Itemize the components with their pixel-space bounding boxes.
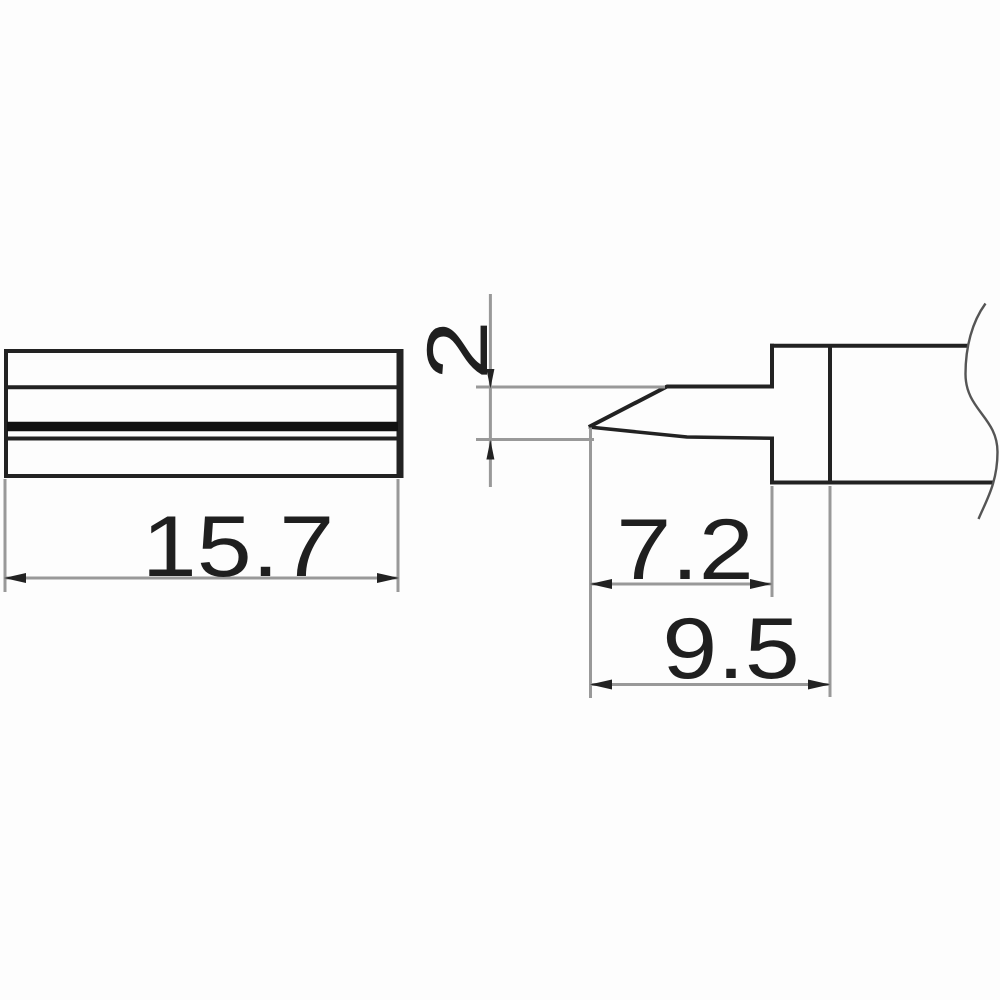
side view body outline [6,351,399,476]
svg-text:9.5: 9.5 [662,600,799,697]
arrow left 9.5 [590,680,612,690]
extension line lower for 2 [476,438,594,441]
arrow left 7.2 [590,579,612,589]
extension line tip vertical [589,428,592,699]
arrow up for 2 [486,440,494,460]
svg-text:15.7: 15.7 [142,498,334,595]
shank step upper [770,344,774,389]
dimension line 15.7 [6,577,397,580]
extension line upper for 2 [476,386,665,389]
side view right edge thick [397,349,404,478]
dimension line 9.5 [591,683,829,686]
shank bottom edge [770,481,993,485]
side view inner line top [7,385,398,389]
extension line left of 15.7 [4,479,7,592]
arrow down for 2 [486,369,494,389]
shank step lower [770,437,774,485]
shank divider line [828,344,832,484]
blade top edge [589,387,772,428]
svg-text:7.2: 7.2 [616,501,753,598]
extension line right of 15.7 [397,479,400,592]
blade bottom edge [589,427,772,438]
svg-text:2: 2 [409,320,505,380]
side view thick band [7,422,398,432]
shank top edge [770,344,969,348]
arrow right 9.5 [808,680,830,690]
arrow right 7.2 [750,579,772,589]
break line squiggle [966,304,998,520]
dimension line 2 vertical [489,294,492,487]
dimension line 7.2 [591,583,771,586]
extension line step vertical [771,486,774,597]
extension line divider vertical [829,486,832,697]
arrow left 15.7 [4,573,26,583]
arrow right 15.7 [377,573,399,583]
side view inner line bottom [7,437,398,441]
